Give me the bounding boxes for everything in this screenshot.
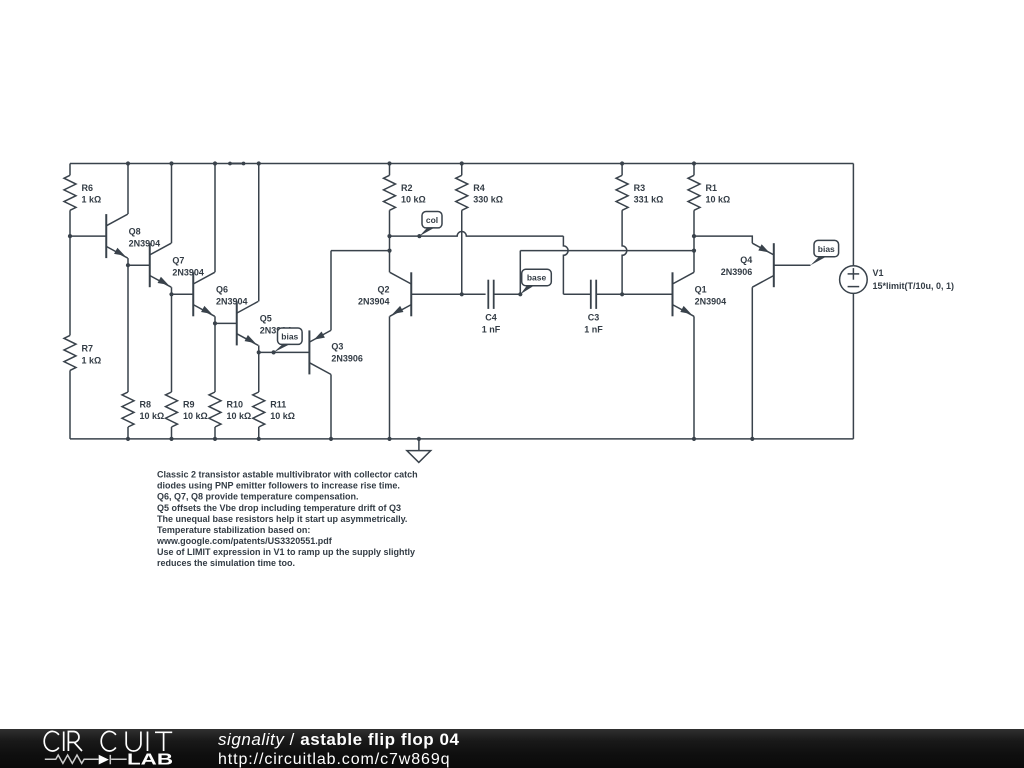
svg-text:10 kΩ: 10 kΩ	[270, 411, 295, 421]
svg-text:R8: R8	[140, 400, 152, 410]
wire Q6 base	[172, 293, 194, 295]
wire Q3 emitter to Q2 collector node	[331, 250, 390, 252]
resistor R8	[122, 392, 134, 427]
svg-text:Use of LIMIT expression in V1: Use of LIMIT expression in V1 to ramp up…	[157, 547, 415, 557]
capacitor C4	[487, 280, 489, 309]
svg-text:10 kΩ: 10 kΩ	[401, 195, 426, 205]
svg-text:10 kΩ: 10 kΩ	[183, 411, 208, 421]
wire col node	[390, 232, 564, 237]
svg-text:2N3904: 2N3904	[358, 296, 390, 306]
svg-text:R11: R11	[270, 400, 286, 410]
svg-text:Q5: Q5	[260, 313, 272, 323]
svg-text:diodes using PNP emitter follo: diodes using PNP emitter followers to in…	[157, 481, 400, 491]
flag col	[422, 212, 442, 228]
svg-text:330 kΩ: 330 kΩ	[473, 195, 503, 205]
svg-text:bias: bias	[818, 244, 835, 254]
wire R4 riser	[461, 210, 463, 294]
svg-text:1 kΩ: 1 kΩ	[82, 355, 102, 365]
wire Q5 emitter to Q3 base	[259, 351, 310, 353]
svg-text:2N3906: 2N3906	[721, 267, 753, 277]
svg-text:2N3904: 2N3904	[129, 238, 161, 248]
svg-text:col: col	[426, 215, 438, 225]
flag bias left	[278, 328, 303, 344]
wire Q3 collector riser	[330, 374, 332, 439]
svg-text:Q1: Q1	[695, 284, 707, 294]
svg-text:1 kΩ: 1 kΩ	[82, 195, 102, 205]
resistor R6	[64, 175, 76, 210]
svg-text:10 kΩ: 10 kΩ	[227, 411, 252, 421]
svg-text:R9: R9	[183, 400, 195, 410]
wire Q1 emitter riser	[693, 316, 695, 439]
svg-text:base: base	[527, 273, 547, 283]
wire Q4 base to bias flag	[774, 264, 811, 266]
transistor Q1	[672, 272, 674, 316]
svg-text:331 kΩ: 331 kΩ	[634, 195, 664, 205]
svg-text:R2: R2	[401, 183, 413, 193]
svg-text:Q5 offsets the Vbe drop includ: Q5 offsets the Vbe drop including temper…	[157, 503, 401, 513]
resistor R3	[616, 175, 628, 210]
svg-text:reduces the simulation time to: reduces the simulation time too.	[157, 558, 295, 568]
wire cross-couple to Q1 collector	[520, 250, 694, 252]
wire Q8 emitter riser	[127, 258, 129, 392]
voltage source V1	[840, 266, 868, 294]
resistor R9	[166, 392, 178, 427]
wire Q4 collector riser	[751, 287, 753, 439]
node small dots on supply rail	[228, 162, 232, 166]
svg-text:10 kΩ: 10 kΩ	[706, 195, 731, 205]
svg-text:2N3904: 2N3904	[216, 296, 248, 306]
svg-text:R1: R1	[706, 183, 718, 193]
transistor Q6	[192, 272, 194, 316]
svg-text:Q3: Q3	[331, 341, 343, 351]
svg-text:Q8: Q8	[129, 226, 141, 236]
svg-text:10 kΩ: 10 kΩ	[140, 411, 165, 421]
svg-text:R3: R3	[634, 183, 646, 193]
wire Q2 base	[411, 293, 485, 295]
flag bias right	[814, 240, 839, 256]
resistor R1	[688, 175, 700, 210]
svg-text:R10: R10	[227, 400, 244, 410]
wire Q8 base	[70, 235, 106, 237]
wire Q3 emitter riser	[330, 251, 332, 331]
transistor Q2	[410, 272, 412, 316]
svg-text:R6: R6	[82, 183, 94, 193]
transistor Q5	[236, 301, 238, 345]
svg-text:2N3904: 2N3904	[695, 296, 727, 306]
wire V1 top	[852, 164, 854, 266]
transistor Q4	[773, 243, 775, 287]
svg-text:Q2: Q2	[377, 284, 389, 294]
transistor Q8	[105, 214, 107, 258]
wire C3 right to Q1 base	[596, 293, 672, 295]
wire Q4 emitter from R1 node	[694, 236, 752, 243]
wire R3 riser with hop	[622, 210, 627, 294]
svg-text:Q4: Q4	[740, 255, 752, 265]
transistor Q7	[149, 243, 151, 287]
svg-text:1 nF: 1 nF	[482, 324, 501, 334]
svg-text:2N3904: 2N3904	[172, 267, 204, 277]
svg-text:bias: bias	[281, 331, 298, 341]
svg-text:Classic 2 transistor astable m: Classic 2 transistor astable multivibrat…	[157, 470, 418, 480]
wire Q8 collector riser	[127, 164, 129, 215]
svg-text:15*limit(T/10u, 0, 1): 15*limit(T/10u, 0, 1)	[873, 281, 955, 291]
CircuitLab logo	[0, 726, 200, 768]
svg-text:Q6, Q7, Q8 provide temperature: Q6, Q7, Q8 provide temperature compensat…	[157, 492, 359, 502]
wire V1 bottom	[852, 293, 854, 439]
wire Q7 collector riser	[171, 164, 173, 244]
wire col riser down to C3	[563, 236, 568, 294]
wire C4 right to base flag corner	[494, 293, 521, 295]
svg-text:www.google.com/patents/US33205: www.google.com/patents/US3320551.pdf	[156, 536, 333, 546]
flag base	[522, 269, 552, 285]
svg-text:V1: V1	[873, 268, 884, 278]
svg-text:Q6: Q6	[216, 284, 228, 294]
ground	[418, 439, 420, 451]
wire bottom rail	[70, 438, 853, 440]
capacitor C3	[590, 280, 592, 309]
wire Q7 emitter riser	[171, 287, 173, 392]
wire Q5 collector riser	[258, 164, 260, 302]
svg-text:R7: R7	[82, 344, 94, 354]
resistor R7	[64, 335, 76, 370]
wire R2 to Q2 collector	[389, 210, 391, 272]
wire Q5 base	[215, 322, 237, 324]
resistor R2	[384, 175, 396, 210]
wire Q2 emitter riser	[389, 316, 391, 439]
svg-text:The unequal base resistors hel: The unequal base resistors help it start…	[157, 514, 407, 524]
wire R1 to Q1 collector	[693, 210, 695, 272]
footer title	[218, 730, 460, 750]
svg-text:Q7: Q7	[172, 255, 184, 265]
wire Q6 collector riser	[214, 164, 216, 273]
wire Q7 base	[128, 264, 150, 266]
svg-text:C3: C3	[588, 312, 600, 322]
svg-text:R4: R4	[473, 183, 485, 193]
svg-text:1 nF: 1 nF	[584, 324, 603, 334]
transistor Q3	[308, 330, 310, 374]
resistor R4	[456, 175, 468, 210]
svg-text:LAB: LAB	[127, 752, 173, 768]
resistor R10	[209, 392, 221, 427]
svg-text:C4: C4	[485, 312, 497, 322]
wire top supply rail	[70, 163, 853, 165]
wire Q6 emitter riser	[214, 316, 216, 392]
wire Q5 emitter riser	[258, 345, 260, 352]
resistor R11	[258, 352, 260, 392]
svg-text:Temperature stabilization base: Temperature stabilization based on:	[157, 525, 310, 535]
node supply-left junction	[68, 234, 72, 238]
svg-text:2N3906: 2N3906	[331, 353, 363, 363]
